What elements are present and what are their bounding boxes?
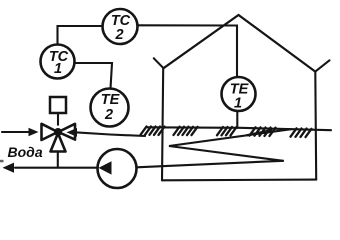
svg-text:1: 1	[54, 61, 62, 77]
svg-text:2: 2	[114, 27, 123, 43]
svg-text:1: 1	[234, 96, 242, 112]
svg-text:ТЕ: ТЕ	[101, 92, 121, 108]
svg-text:Вода: Вода	[8, 144, 43, 160]
svg-text:2: 2	[104, 107, 113, 123]
